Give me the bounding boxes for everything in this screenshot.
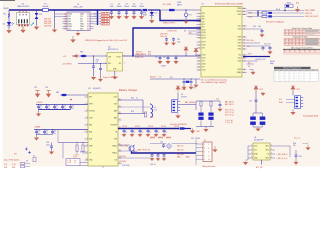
caps on VBAT bus	[152, 153, 153, 154]
connector J7 debug	[203, 142, 212, 162]
svg-text:+VBAT: +VBAT	[34, 126, 41, 129]
table power domains grid	[284, 29, 320, 31]
svg-text:R26: R26	[293, 143, 296, 145]
no-connect dot	[70, 99, 72, 101]
wire status rows	[118, 150, 138, 152]
ground top right	[297, 7, 299, 9]
svg-text:R10 10k: R10 10k	[247, 40, 254, 42]
IC U4 accelerometer	[253, 143, 270, 160]
caps on VSYS bus	[123, 128, 124, 129]
ground collector	[53, 29, 56, 32]
wire VBUS vertical at left end	[8, 10, 10, 22]
ground below C4	[92, 76, 95, 79]
wire thermistor top row	[58, 142, 88, 144]
svg-text:31: 31	[243, 43, 245, 45]
table three header line	[283, 48, 320, 50]
crystal Y1 cluster	[183, 78, 184, 79]
bus VSYS charger output	[118, 128, 179, 130]
wire 3V3 rail mid	[133, 55, 201, 57]
svg-text:IO18: IO18	[202, 45, 206, 47]
svg-text:C15: C15	[39, 105, 42, 107]
svg-text:C35 1u: C35 1u	[150, 164, 156, 166]
wire VBUS pins to collector	[55, 13, 63, 15]
svg-text:IO38: IO38	[238, 40, 242, 42]
svg-text:DN1: DN1	[68, 21, 71, 23]
svg-text:IO46: IO46	[202, 64, 206, 66]
svg-text:IO8: IO8	[202, 48, 205, 50]
ground right of U4	[307, 145, 309, 147]
svg-text:ESP32-S3-WROOM-1-N8R2: ESP32-S3-WROOM-1-N8R2	[215, 4, 244, 6]
svg-text:C.1x_1 y1: C.1x_1 y1	[225, 122, 233, 124]
capacitor C11	[262, 46, 264, 48]
wire U3 bottom stub	[102, 166, 104, 168]
svg-text:IO41: IO41	[238, 26, 242, 28]
connector J1 USB-C body	[67, 12, 90, 31]
ground J8	[292, 110, 294, 112]
svg-text:3V3: 3V3	[260, 89, 263, 91]
svg-text:VBUS: VBUS	[68, 26, 72, 28]
svg-text:IO3: IO3	[202, 61, 205, 63]
svg-text:PWR_5V: PWR_5V	[135, 57, 144, 59]
svg-text:IO10: IO10	[202, 70, 206, 72]
svg-text:DN2: DN2	[80, 21, 83, 23]
ground strap	[261, 34, 264, 37]
svg-text:CC2: CC2	[68, 28, 71, 30]
svg-text:33: 33	[243, 37, 245, 39]
inductor L2 coil	[151, 105, 153, 118]
svg-text:C5: C5	[155, 57, 157, 59]
net labels debug left	[177, 145, 184, 156]
wire rows to right edge	[272, 12, 304, 14]
svg-text:C9: C9	[193, 88, 195, 90]
pins D1 to rail	[19, 10, 21, 13]
label rail ports	[136, 51, 151, 55]
polarized caps battery2	[250, 117, 256, 120]
svg-text:USB_DP: USB_DP	[305, 13, 313, 15]
svg-text:USB_CHG_DET: USB_CHG_DET	[305, 16, 319, 18]
svg-text:INT1: INT1	[266, 146, 270, 148]
svg-text:22u: 22u	[71, 108, 74, 110]
svg-text:B5: B5	[64, 28, 66, 30]
capacitor C24 right of bridge	[219, 101, 221, 105]
svg-text:SYSOFF: SYSOFF	[120, 161, 127, 163]
svg-text:10u: 10u	[141, 131, 144, 133]
svg-text:10u: 10u	[133, 131, 136, 133]
svg-text:xxxx xxxx xxxx: xxxx xxxx xxxx	[306, 34, 315, 36]
svg-text:22: 22	[243, 72, 245, 74]
svg-text:13: 13	[199, 58, 201, 60]
ground battery2	[256, 128, 259, 131]
svg-text:IO0: IO0	[238, 55, 241, 57]
svg-text:USB_D4: USB_D4	[102, 24, 108, 26]
svg-text:C9: C9	[159, 77, 161, 79]
svg-text:U3: U3	[88, 88, 90, 90]
transistor Q1 battery fet	[118, 144, 130, 146]
svg-text:C14: C14	[45, 87, 48, 89]
svg-text:J7: J7	[204, 140, 206, 142]
svg-text:IO45: IO45	[238, 58, 242, 60]
ground below J1	[77, 31, 79, 33]
capacitor C23 to ground	[51, 143, 53, 147]
pins U1 right mid1	[242, 25, 247, 27]
power flag BLE header	[291, 86, 295, 91]
svg-text:IO0: IO0	[253, 26, 256, 28]
wire stub U1 pin rows left	[188, 30, 201, 32]
pins J1 right side	[90, 13, 94, 15]
probe mark	[31, 23, 34, 26]
svg-text:IO17: IO17	[202, 42, 206, 44]
wire charger row2	[118, 113, 143, 115]
svg-text:OUT: OUT	[114, 97, 117, 99]
switch SW1 box	[285, 4, 293, 7]
svg-text:IO17: IO17	[202, 35, 206, 37]
svg-text:CS: CS	[267, 154, 269, 156]
svg-text:x_TH_xx: x_TH_xx	[73, 154, 79, 156]
capacitor bank row 1	[38, 104, 39, 105]
svg-text:26: 26	[243, 58, 245, 60]
svg-text:100nF: 100nF	[132, 6, 137, 8]
TVS diode D4 after ferrite	[151, 9, 152, 10]
svg-text:IO9: IO9	[202, 67, 205, 69]
IC U2 LDO regulator	[107, 53, 123, 72]
ground right low	[249, 69, 253, 71]
svg-text:J6: J6	[181, 94, 183, 96]
wire strap row	[247, 28, 263, 30]
net labels VSYS row2	[150, 138, 172, 140]
svg-text:USB_DP1: USB_DP1	[44, 19, 51, 21]
svg-text:BAT_PROT Q1: BAT_PROT Q1	[138, 148, 150, 151]
table pinmap header row	[274, 69, 319, 71]
capacitor C10 strap	[261, 29, 263, 31]
svg-text:VBUS: VBUS	[68, 14, 72, 16]
svg-text:10k: 10k	[293, 145, 296, 147]
svg-text:11: 11	[199, 48, 201, 50]
svg-text:VBUS5V0 Plugged-In for PoE: (2: VBUS5V0 Plugged-In for PoE: (2x) V-in=5 …	[85, 39, 127, 42]
port arrow +5V	[72, 54, 78, 57]
bus VSYS from U1 to LDO	[133, 28, 201, 56]
capacitor C5	[159, 55, 160, 56]
wire cap bank rail 2	[34, 129, 88, 131]
svg-text:JST-PH: JST-PH	[181, 96, 187, 98]
capacitor C6	[167, 55, 168, 56]
svg-text:VBUS: VBUS	[80, 14, 84, 16]
resistor R7 series	[262, 15, 267, 17]
svg-text:C13: C13	[34, 87, 37, 89]
svg-text:SBU1: SBU1	[68, 24, 72, 26]
test point TP2	[28, 151, 31, 154]
wire bottom vertical	[57, 130, 59, 143]
svg-text:38: 38	[243, 14, 245, 16]
svg-text:100nF: 100nF	[117, 6, 122, 8]
ground below polyfuse	[184, 20, 187, 23]
svg-text:17: 17	[199, 70, 201, 72]
svg-text:10: 10	[208, 159, 210, 161]
svg-text:C23: C23	[46, 142, 49, 144]
svg-text:Input TVS diodes: Input TVS diodes	[4, 159, 19, 162]
svg-text:VSYS: VSYS	[166, 138, 172, 140]
svg-text:B7: B7	[87, 19, 89, 21]
svg-text:SCL: SCL	[254, 150, 257, 152]
svg-text:INT2: INT2	[266, 150, 270, 152]
svg-text:R11: R11	[247, 46, 250, 48]
bus 3V3 out right	[243, 56, 270, 58]
ground bridge	[205, 127, 207, 129]
svg-text:CHG_STAT: CHG_STAT	[120, 144, 129, 147]
svg-text:10uF: 10uF	[46, 144, 50, 146]
wire +5V into LDO input	[72, 55, 107, 57]
svg-text:23: 23	[243, 69, 245, 71]
svg-text:USB_DN2: USB_DN2	[44, 26, 51, 28]
svg-text:FB3: FB3	[56, 92, 59, 94]
svg-text:VBUS_PROT: VBUS_PROT	[163, 23, 176, 25]
ferrite FB4 on VSYS bus	[180, 127, 185, 129]
net VBUS main rail	[9, 9, 141, 11]
svg-text:xx: xx	[75, 162, 77, 164]
wire J7 vertical	[195, 137, 197, 165]
resistor R1 on LED branch	[8, 13, 10, 18]
svg-text:100nF: 100nF	[161, 65, 166, 67]
svg-text:R23: R23	[131, 111, 134, 113]
wire LDO ground pin	[114, 71, 116, 76]
wire to charger TS pin	[80, 162, 88, 164]
svg-text:IO35: IO35	[238, 49, 242, 51]
svg-text:R3: R3	[170, 77, 172, 79]
svg-text:IO40: IO40	[238, 29, 242, 31]
svg-text:C24: C24	[216, 99, 219, 101]
svg-text:VDD33: VDD33	[136, 51, 142, 53]
svg-text:IO20: IO20	[202, 58, 206, 60]
wire debug rows	[150, 143, 166, 145]
wire J1 VBUS collect trunk	[97, 10, 99, 25]
svg-text:C28: C28	[299, 156, 302, 158]
ferrite bead FB5 on rail right	[169, 9, 175, 11]
ground caps right	[269, 51, 272, 54]
label charger status rows	[120, 144, 129, 163]
table three rows	[283, 50, 320, 52]
svg-text:2k: 2k	[136, 98, 138, 100]
table io notes block 2	[306, 38, 319, 39]
svg-text:x_TH: x_TH	[67, 162, 71, 164]
svg-text:CHG_OK: CHG_OK	[160, 36, 168, 38]
svg-text:EN2: EN2	[89, 132, 92, 134]
svg-text:B8: B8	[87, 16, 89, 18]
wire LDO output to bus node	[123, 55, 134, 57]
svg-text:PWM: PWM	[248, 17, 253, 19]
ground VSYS filter	[192, 129, 194, 130]
TVS diode D3	[36, 10, 38, 13]
svg-text:BAT-: BAT-	[186, 155, 190, 158]
net stub labels bottom left	[4, 164, 16, 169]
wire VBUS corner into U1	[160, 10, 201, 21]
svg-text:25: 25	[243, 61, 245, 63]
svg-text:xx: xx	[75, 160, 77, 162]
svg-text:EN_RC: EN_RC	[150, 77, 157, 79]
svg-text:+3V3: +3V3	[247, 54, 251, 56]
svg-text:VSYS: VSYS	[158, 138, 164, 140]
ground below D1	[21, 29, 24, 33]
capacitor C8 en filter	[100, 63, 101, 64]
test point TP1	[25, 148, 28, 151]
svg-text:EN1: EN1	[89, 125, 92, 127]
svg-text:3V3: 3V3	[202, 13, 205, 15]
svg-text:4: 4	[124, 62, 125, 64]
svg-text:B4: B4	[64, 26, 66, 28]
wire charger out row	[118, 99, 143, 101]
table power notes block 1	[306, 30, 319, 31]
bus VBAT to battery conn	[132, 151, 197, 153]
svg-text:IO7: IO7	[202, 27, 205, 29]
pins U1 right mid2	[242, 36, 247, 38]
svg-text:PATH: PATH	[177, 3, 182, 6]
svg-text:IO5: IO5	[202, 21, 205, 23]
svg-text:500mA: 500mA	[43, 5, 49, 8]
svg-text:IO39: IO39	[238, 37, 242, 39]
diamond net tie	[166, 144, 171, 149]
svg-text:IO19: IO19	[202, 55, 206, 57]
svg-text:15: 15	[199, 64, 201, 66]
svg-text:R12: R12	[296, 2, 299, 4]
svg-text:36: 36	[243, 26, 245, 28]
svg-text:SH2: SH2	[12, 167, 15, 169]
svg-text:+5V_USB: +5V_USB	[162, 4, 172, 6]
svg-text:SYSOFF: SYSOFF	[111, 125, 117, 127]
svg-text:DBG_EN: DBG_EN	[177, 154, 184, 156]
svg-text:32: 32	[243, 40, 245, 42]
svg-text:R30: R30	[197, 138, 200, 140]
wire I2C vertical	[255, 91, 257, 113]
wire vertical feed	[257, 11, 259, 17]
pins U1 right top group	[242, 8, 247, 10]
svg-text:C33: C33	[177, 39, 180, 41]
svg-text:R22: R22	[131, 98, 134, 100]
power flag feed 2	[194, 49, 198, 54]
svg-text:IO37: IO37	[238, 43, 242, 45]
capacitor C13 series	[268, 12, 272, 14]
svg-text:AP2112K-3.3: AP2112K-3.3	[108, 48, 118, 51]
svg-text:R13 4k7 Foot Adapter: R13 4k7 Foot Adapter	[266, 20, 285, 23]
svg-text:12: 12	[199, 55, 201, 57]
svg-text:DP2: DP2	[80, 19, 83, 21]
svg-text:40: 40	[243, 8, 245, 10]
svg-text:VBUS: VBUS	[80, 26, 84, 28]
svg-text:+VSYS: +VSYS	[36, 102, 43, 104]
svg-text:BAT_SENSE: BAT_SENSE	[185, 101, 196, 104]
svg-text:IO6: IO6	[202, 24, 205, 26]
svg-text:IO16: IO16	[202, 32, 206, 34]
svg-text:R19: R19	[148, 51, 151, 53]
wire U3 vin row	[60, 94, 88, 96]
svg-text:USBLC6-2SC6: USBLC6-2SC6	[17, 6, 29, 8]
resistor R16 vertical	[82, 145, 84, 152]
capacitor C7	[175, 55, 176, 56]
wire VBUS collector left of J1	[54, 9, 56, 11]
svg-text:C11 C12: C11 C12	[264, 43, 271, 45]
pins U3 right rows	[118, 99, 122, 101]
svg-text:IO48: IO48	[238, 61, 242, 63]
svg-text:+VSYS_IN: +VSYS_IN	[167, 31, 177, 33]
wire enable row	[150, 78, 201, 80]
svg-text:14: 14	[199, 61, 201, 63]
table pinmap body	[274, 71, 319, 82]
capacitor C4 LDO input	[93, 56, 95, 66]
svg-text:10u: 10u	[149, 131, 152, 133]
svg-text:I_IMU_SCL_IO: I_IMU_SCL_IO	[276, 158, 288, 160]
svg-text:FB2: FB2	[80, 52, 83, 54]
svg-text:17: 17	[119, 119, 121, 121]
wire EN pin	[78, 63, 107, 65]
pins D1 bottom pads	[18, 25, 20, 27]
ground below LED	[7, 29, 10, 33]
svg-text:BQ-IMU/PHY: BQ-IMU/PHY	[254, 140, 264, 142]
svg-text:30: 30	[243, 46, 245, 48]
svg-text:IO42: IO42	[238, 14, 242, 16]
svg-text:10: 10	[86, 159, 88, 161]
svg-text:FB4: FB4	[197, 131, 200, 133]
capacitor C28	[295, 150, 297, 155]
svg-text:USB_DP2: USB_DP2	[44, 23, 51, 25]
wire rail continues to U1	[160, 9, 201, 11]
node junction input cap	[93, 55, 94, 56]
capacitor bank row 2	[36, 129, 37, 130]
svg-text:10u: 10u	[53, 133, 56, 135]
pins U1 left middle group	[197, 41, 202, 43]
svg-text:L2: L2	[154, 107, 156, 109]
IC D1 USB ESD protection array	[17, 13, 30, 25]
wire J6 to fuse	[180, 103, 196, 105]
svg-text:10u: 10u	[157, 131, 160, 133]
svg-text:DP1: DP1	[68, 19, 71, 21]
pins J1 left side	[63, 13, 68, 15]
net labels below bus	[150, 137, 172, 139]
table io grid 2	[284, 37, 320, 39]
svg-text:R18: R18	[148, 54, 151, 56]
svg-text:C16: C16	[47, 105, 50, 107]
table pinmap title band	[274, 67, 311, 69]
svg-text:CC1: CC1	[68, 16, 71, 18]
svg-text:C6: C6	[163, 57, 165, 59]
svg-text:B5: B5	[87, 24, 89, 26]
ground J6	[177, 114, 179, 115]
ferrite bead FB1 on rail	[143, 9, 148, 11]
TVS diode pair D5	[21, 162, 25, 164]
svg-text:unused: unused	[303, 143, 309, 145]
svg-text:Page 3 DNI (Opt): Page 3 DNI (Opt)	[103, 76, 118, 79]
svg-text:C2x_1u: C2x_1u	[294, 138, 300, 140]
capacitor C34	[173, 38, 175, 39]
svg-text:10k: 10k	[258, 26, 261, 28]
schematic sheet background	[0, 0, 320, 169]
svg-text:3V3_OUT: 3V3_OUT	[136, 54, 144, 56]
svg-text:3V3: 3V3	[297, 89, 300, 91]
svg-text:10u: 10u	[165, 131, 168, 133]
svg-text:BAT_1A V1: BAT_1A V1	[225, 103, 234, 106]
svg-text:PGOOD: PGOOD	[89, 111, 96, 113]
wire U4 int rows	[275, 145, 290, 147]
svg-text:Red Dis (ATTACH): Red Dis (ATTACH)	[170, 123, 187, 126]
svg-text:Map: Map	[270, 63, 274, 65]
ground below J1 second	[72, 36, 74, 38]
svg-text:RXD0: RXD0	[237, 11, 241, 13]
svg-text:10u: 10u	[125, 131, 128, 133]
svg-text:IO36: IO36	[238, 46, 242, 48]
wire U4 right vert	[289, 146, 291, 157]
capacitor C12	[269, 46, 271, 48]
svg-text:C30 10uF: C30 10uF	[122, 165, 129, 167]
pins U1 right low	[242, 54, 247, 56]
svg-text:LDO33_OUT: LDO33_OUT	[255, 59, 266, 61]
svg-text:D5: D5	[26, 161, 28, 163]
svg-text:10: 10	[199, 45, 201, 47]
